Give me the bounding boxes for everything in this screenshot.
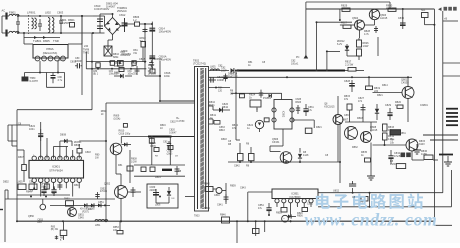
label ic2 pins — [276, 205, 299, 207]
transistor Q808 — [361, 126, 378, 143]
ground — [413, 144, 421, 154]
wire — [56, 16, 93, 33]
capacitor body — [41, 186, 46, 196]
capacitor C812 — [119, 13, 128, 32]
IC851 pins — [275, 199, 313, 203]
label C817 — [131, 61, 138, 68]
label C811 — [120, 51, 131, 57]
wire — [8, 125, 17, 221]
diode pair D806 — [118, 61, 124, 66]
label D810 — [209, 101, 216, 107]
capacitor C828 — [344, 80, 355, 92]
label C810 — [94, 4, 109, 11]
relay S801 box — [421, 9, 428, 18]
diode D817 — [167, 187, 175, 203]
svg-text:R855: R855 — [276, 212, 282, 215]
svg-text:IC801: IC801 — [52, 165, 60, 169]
labels — [139, 57, 162, 61]
fuse F801 — [9, 11, 19, 17]
label C833col — [219, 126, 225, 132]
transformer T802 body — [195, 67, 209, 212]
wire corner node A — [306, 2, 390, 9]
svg-text:C828: C828 — [344, 80, 351, 83]
bus wire — [228, 161, 341, 163]
svg-text:C829: C829 — [385, 104, 392, 107]
line filter T800 coupled choke — [27, 11, 44, 35]
capacitor C820c — [167, 141, 171, 149]
wire — [8, 124, 30, 126]
svg-text:1/2W: 1/2W — [421, 153, 427, 156]
wire — [127, 150, 133, 183]
label R808b — [101, 110, 107, 116]
wire — [236, 140, 283, 152]
transistor Q810 — [324, 103, 343, 125]
label below ic — [30, 190, 34, 193]
resistor body — [96, 63, 100, 68]
cjk blob label — [401, 153, 411, 158]
label C820 — [218, 65, 223, 68]
wire — [247, 192, 249, 222]
svg-text:100u/1: 100u/1 — [291, 62, 299, 65]
label C818 — [85, 151, 91, 154]
wire — [121, 192, 141, 221]
label C821b — [167, 150, 173, 156]
box R856 — [297, 208, 308, 218]
diode D807b — [122, 143, 132, 147]
svg-text:D852: D852 — [3, 181, 9, 184]
label cluster — [150, 141, 168, 148]
resistor R826 — [357, 40, 370, 48]
wire enclosure return — [17, 110, 92, 140]
label below ic2 — [52, 192, 56, 195]
svg-text:R831: R831 — [400, 132, 406, 135]
capacitor C852 — [95, 189, 107, 200]
resistor TH801 body — [250, 100, 261, 107]
arrow junction — [296, 55, 308, 60]
svg-text:(DEGAUSS): (DEGAUSS) — [43, 51, 58, 55]
svg-text:R842: R842 — [222, 106, 229, 109]
svg-text:A1015: A1015 — [380, 17, 388, 20]
label R818 — [357, 117, 363, 120]
resistor R834 body — [383, 133, 395, 141]
label C809 — [121, 49, 131, 56]
resistor R809 body — [119, 68, 124, 72]
wire rail mid — [50, 204, 110, 206]
capacitor C839 body — [153, 189, 159, 200]
label heater — [420, 104, 428, 107]
svg-text:R821: R821 — [377, 94, 383, 97]
junction dots misc — [92, 13, 161, 102]
svg-text:C81: C81 — [109, 71, 114, 73]
wire — [209, 105, 214, 107]
transformer T802 core — [200, 68, 204, 209]
box body — [396, 164, 405, 169]
wire — [41, 122, 68, 159]
AC plug P801 — [2, 13, 9, 37]
degauss thermistor row — [24, 33, 60, 39]
svg-text:0.0047: 0.0047 — [169, 131, 177, 134]
wire bottom corner — [434, 221, 452, 225]
capacitor C821 — [209, 76, 225, 83]
svg-text:TNR: TNR — [53, 39, 59, 43]
wire rail — [5, 198, 115, 200]
junction dots B rail — [235, 70, 328, 79]
capacitor C813 — [143, 28, 148, 33]
junction dots AC rails — [17, 15, 153, 34]
svg-text:100u/1kV: 100u/1kV — [120, 54, 131, 57]
capacitor C814 — [149, 27, 171, 34]
resistor body — [347, 104, 352, 110]
svg-text:Q850: Q850 — [28, 215, 35, 218]
label AC in — [2, 9, 6, 13]
capacitor C822 body — [38, 129, 43, 141]
wire — [85, 52, 87, 69]
label below rail2 — [109, 71, 119, 76]
svg-text:Q807: Q807 — [342, 119, 349, 122]
diode D854 — [288, 214, 296, 218]
transistor Q852 — [104, 183, 128, 199]
capacitor body — [361, 104, 366, 114]
label R810b — [119, 130, 131, 136]
transistor Q804 — [355, 20, 371, 36]
label Bplus — [176, 117, 185, 123]
label — [37, 220, 43, 225]
svg-text:(100k): (100k) — [114, 117, 121, 120]
svg-text:C832: C832 — [170, 121, 176, 124]
capacitor C803 — [59, 16, 63, 33]
svg-text:C851: C851 — [98, 201, 104, 204]
wire — [359, 30, 361, 38]
label R841 — [210, 114, 217, 120]
bridge rectifier D801-D804 — [105, 18, 121, 35]
snubber box — [147, 184, 178, 208]
wire — [91, 33, 93, 110]
svg-text:R85: R85 — [60, 238, 65, 240]
inductor L805 — [210, 66, 220, 71]
svg-text:0.47/50: 0.47/50 — [176, 120, 185, 123]
resistor body — [220, 214, 230, 224]
label C826 — [222, 103, 229, 109]
svg-text:FMG22S: FMG22S — [228, 75, 238, 78]
node main label — [438, 7, 457, 11]
capacitor C804 — [51, 73, 63, 84]
svg-text:100n: 100n — [29, 128, 35, 131]
small cluster — [240, 90, 272, 98]
svg-text:C842: C842 — [234, 165, 240, 168]
box — [17, 181, 26, 190]
label C825r — [291, 60, 299, 66]
label S801 — [60, 18, 71, 25]
transistor Q806 — [272, 138, 292, 163]
stub wire — [443, 62, 460, 64]
label R821 — [377, 94, 383, 97]
wire — [145, 61, 161, 77]
transistor Q809 — [406, 139, 426, 151]
svg-text:D818: D818 — [221, 138, 227, 141]
svg-text:C815: C815 — [139, 57, 146, 61]
junction dots bus — [30, 187, 292, 222]
label D8 in — [175, 156, 179, 158]
svg-text:F801: F801 — [9, 11, 16, 15]
svg-text:+D806: +D806 — [154, 57, 162, 61]
svg-text:4.7u: 4.7u — [58, 79, 63, 82]
svg-text:Q804: Q804 — [352, 17, 359, 20]
resistor R830 body — [388, 8, 396, 11]
label pair — [234, 165, 250, 168]
svg-text:680k: 680k — [113, 56, 119, 59]
svg-text:R85: R85 — [51, 227, 56, 229]
wire — [368, 77, 370, 86]
label T803 — [194, 215, 200, 218]
connector pin stubs — [446, 109, 458, 126]
label R812 — [148, 63, 155, 70]
transistor Q851 — [68, 208, 85, 220]
capacitor C829 — [385, 104, 393, 120]
resistor R852 body — [249, 147, 255, 162]
label R849 — [26, 191, 32, 194]
diode D809 — [231, 68, 234, 73]
label cluster — [230, 90, 234, 96]
dark bar — [439, 154, 453, 156]
capacitor C836 — [398, 17, 406, 29]
svg-text:L806: L806 — [155, 204, 161, 207]
capacitor small — [374, 26, 378, 33]
svg-text:47u: 47u — [308, 109, 313, 112]
svg-text:~: ~ — [283, 217, 285, 221]
diode D807 body — [114, 74, 132, 78]
capacitor C831 — [303, 104, 314, 116]
degaussing coil box T801 — [33, 45, 68, 59]
labels over degauss — [33, 39, 59, 43]
label C816 — [164, 71, 171, 78]
wire right border 2 — [442, 11, 444, 193]
svg-text:4.7k: 4.7k — [388, 138, 393, 141]
transformer T802 primary winding — [197, 68, 199, 209]
box part — [64, 199, 74, 207]
wire pins — [277, 203, 311, 217]
vertical bus wire — [305, 2, 307, 55]
resistor R807 body — [17, 150, 26, 182]
label R814 — [231, 73, 238, 76]
wire — [235, 70, 237, 102]
box body — [149, 138, 154, 143]
wire — [24, 38, 82, 45]
resistor R836 body — [421, 150, 433, 160]
wire — [317, 193, 319, 199]
svg-text:C83: C83 — [163, 141, 168, 144]
svg-text:R814: R814 — [231, 73, 238, 76]
svg-text:R832: R832 — [352, 146, 358, 149]
resistor dark box — [390, 130, 401, 135]
bottom cluster label2 — [60, 238, 65, 243]
label — [118, 164, 123, 167]
label D808 — [60, 134, 67, 137]
resistor body — [117, 231, 123, 234]
svg-text:0.47: 0.47 — [148, 66, 154, 70]
svg-text:R823: R823 — [295, 101, 301, 104]
resistor R841 body — [214, 121, 220, 125]
svg-text:C945: C945 — [78, 216, 84, 219]
labels left cluster — [344, 95, 365, 103]
wire bridge right — [121, 18, 125, 26]
label L802 — [45, 11, 51, 15]
label C851 — [98, 201, 104, 204]
svg-text:D808: D808 — [60, 134, 67, 137]
resistor R827 body — [341, 22, 351, 29]
svg-text:100u/400V: 100u/400V — [159, 30, 172, 34]
svg-text:C80: C80 — [93, 71, 98, 73]
label under box — [155, 176, 161, 179]
svg-text:(2kV): (2kV) — [167, 152, 173, 155]
svg-text:240: 240 — [84, 45, 89, 48]
svg-text:471: 471 — [358, 100, 363, 103]
stub wire — [443, 75, 460, 77]
wire — [345, 110, 377, 122]
label D814 — [382, 84, 388, 87]
svg-text:FMG: FMG — [209, 104, 215, 107]
svg-text:2.2/1W: 2.2/1W — [345, 63, 354, 67]
wire corner — [317, 22, 353, 70]
label D807 — [114, 71, 121, 75]
label C832 — [170, 121, 176, 124]
transistor Q801 — [401, 78, 414, 99]
svg-text:R85: R85 — [37, 222, 42, 224]
circle part — [40, 199, 46, 210]
svg-text:D814: D814 — [382, 84, 388, 87]
svg-text:C836: C836 — [398, 17, 405, 20]
svg-text:KSC1815: KSC1815 — [324, 105, 335, 108]
resistor R819 body — [366, 86, 381, 93]
label T802 — [193, 59, 206, 66]
svg-text:Q852: Q852 — [104, 183, 111, 186]
wire — [373, 140, 407, 146]
label R814b — [248, 61, 253, 67]
wire — [209, 87, 231, 89]
label box in — [155, 156, 159, 158]
label R844 — [204, 207, 210, 210]
wire — [236, 220, 238, 243]
wire chassis drop — [81, 16, 83, 95]
wire — [142, 47, 144, 62]
svg-text:C812: C812 — [119, 13, 126, 17]
stub wire — [423, 134, 458, 136]
label R807t — [18, 156, 24, 159]
IC801 top pins — [32, 156, 81, 160]
small box — [154, 146, 173, 152]
resistor R851 body — [238, 143, 244, 162]
IC801 regulator — [29, 160, 84, 178]
label — [113, 226, 119, 232]
bottom cluster labels — [51, 227, 59, 232]
label R831 — [400, 132, 406, 135]
wire — [116, 155, 121, 186]
resistor R829 body — [342, 8, 350, 11]
label R832 — [352, 146, 358, 149]
label pin numbers — [33, 155, 74, 157]
svg-text:R859: R859 — [230, 185, 236, 188]
label D820b — [316, 126, 322, 129]
svg-text:www. cndzz. com: www. cndzz. com — [305, 210, 438, 230]
label pair2 — [228, 140, 250, 146]
svg-text:R843: R843 — [219, 129, 225, 132]
svg-text:C852: C852 — [100, 189, 106, 191]
capacitor C856 to node — [349, 181, 356, 193]
bottom cluster cap — [55, 236, 58, 240]
svg-text:T803: T803 — [194, 215, 200, 218]
label R823 — [295, 98, 301, 104]
capacitor body — [57, 185, 62, 187]
label 240 — [84, 45, 89, 48]
svg-text:R818: R818 — [357, 117, 363, 120]
capacitor body — [149, 60, 153, 67]
wire — [213, 183, 226, 202]
wire — [292, 120, 314, 128]
svg-text:L851: L851 — [95, 224, 101, 227]
wire right border 1 — [433, 9, 435, 222]
capacitor C825 — [296, 105, 300, 114]
resistor R833 body — [383, 124, 395, 132]
label C817b — [262, 61, 266, 64]
wire — [248, 192, 272, 203]
resistor R825 — [357, 49, 362, 56]
wire corner — [327, 51, 340, 70]
wire degauss tap — [81, 15, 83, 44]
wire rail — [25, 72, 65, 74]
label — [214, 194, 220, 197]
label C803 — [57, 11, 64, 15]
wire — [318, 192, 443, 194]
box body — [110, 61, 114, 66]
svg-text:R850: R850 — [64, 199, 70, 201]
diode D808 body — [60, 139, 72, 159]
wire — [236, 122, 283, 146]
resistor body — [150, 167, 155, 172]
wire below bus — [255, 220, 266, 236]
svg-text:4.7k: 4.7k — [364, 33, 369, 36]
wire — [5, 190, 8, 242]
wire — [285, 122, 340, 183]
label C8 ic — [18, 123, 22, 126]
box body — [132, 61, 136, 66]
svg-text:470/25: 470/25 — [100, 191, 108, 193]
label C805 — [70, 61, 77, 64]
component band rails — [134, 165, 185, 176]
label rows — [390, 139, 395, 145]
diode D810 body — [213, 106, 230, 112]
shunt reg KIA431 — [255, 108, 269, 132]
wire bridge bottom — [108, 35, 113, 53]
wire — [373, 76, 410, 122]
svg-text:R856: R856 — [297, 215, 303, 218]
capacitor C854 — [258, 203, 272, 216]
capacitor C823 body — [175, 166, 180, 175]
svg-text:C843: C843 — [240, 187, 246, 190]
box body — [123, 124, 127, 128]
svg-text:120: 120 — [218, 89, 223, 92]
edge tick — [0, 209, 3, 211]
label below rail4 — [148, 71, 157, 76]
svg-text:D821: D821 — [316, 126, 322, 129]
main cap rail — [145, 22, 152, 70]
svg-text:IC802: IC802 — [282, 111, 285, 118]
wire degauss drop — [40, 61, 58, 73]
capacitor C834 — [388, 150, 402, 164]
capacitor C817 body — [135, 66, 140, 75]
svg-text:1N4007: 1N4007 — [106, 5, 116, 9]
label R809b — [114, 115, 121, 121]
svg-text:(TCE2742): (TCE2742) — [193, 62, 206, 66]
label U852 — [333, 190, 340, 193]
